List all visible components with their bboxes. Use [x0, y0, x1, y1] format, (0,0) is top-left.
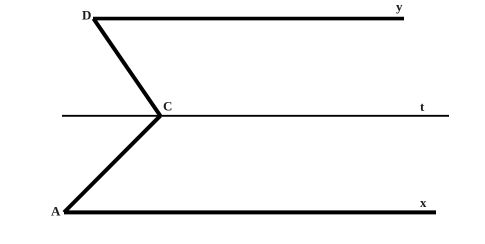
svg-text:D: D [82, 8, 91, 23]
svg-text:t: t [420, 99, 425, 114]
segment DC (thick diagonal) [94, 19, 161, 116]
line x (bottom thick horizontal ray from A) [64, 210, 436, 214]
svg-text:A: A [51, 204, 61, 219]
line y (top thick horizontal ray from D) [93, 17, 404, 21]
svg-text:C: C [163, 99, 172, 114]
line t (thin transversal horizontal) [62, 115, 449, 117]
svg-text:y: y [396, 0, 403, 14]
svg-text:x: x [420, 195, 427, 210]
segment CA (thick diagonal) [64, 116, 160, 213]
